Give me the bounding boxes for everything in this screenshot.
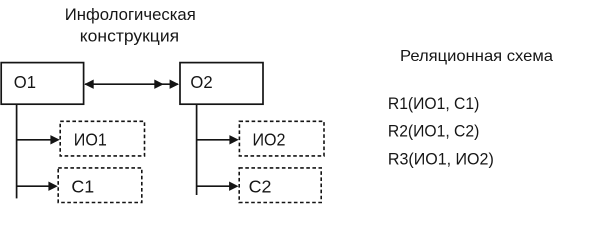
svg-text:О1: О1 bbox=[14, 72, 36, 92]
svg-text:R3(ИО1, ИО2): R3(ИО1, ИО2) bbox=[388, 150, 494, 168]
dashed box C1 bbox=[58, 168, 142, 203]
box O2 bbox=[180, 63, 263, 105]
svg-text:С1: С1 bbox=[71, 176, 94, 196]
box O1 bbox=[1, 63, 83, 105]
wire arrow to C1 bbox=[17, 182, 58, 191]
dashed box IO1 bbox=[60, 121, 144, 156]
wire arrow to IO2 bbox=[197, 135, 239, 144]
svg-text:конструкция: конструкция bbox=[80, 26, 179, 45]
wire double arrow O1-O2 bbox=[84, 80, 179, 89]
wire arrow to C2 bbox=[197, 182, 239, 191]
svg-text:ИО1: ИО1 bbox=[74, 130, 107, 150]
svg-text:Реляционная схема: Реляционная схема bbox=[400, 48, 553, 65]
svg-text:Инфологическая: Инфологическая bbox=[65, 5, 196, 24]
dashed box IO2 bbox=[239, 121, 324, 156]
wire arrow to IO1 bbox=[17, 135, 60, 144]
wire vertical from O1 bbox=[16, 104, 18, 198]
svg-text:R1(ИО1, С1): R1(ИО1, С1) bbox=[388, 95, 479, 113]
svg-text:ИО2: ИО2 bbox=[253, 130, 286, 150]
wire vertical from O2 bbox=[196, 104, 198, 195]
dashed box C2 bbox=[239, 168, 321, 203]
svg-text:О2: О2 bbox=[190, 72, 212, 92]
svg-text:R2(ИО1, С2): R2(ИО1, С2) bbox=[388, 123, 479, 141]
svg-text:С2: С2 bbox=[249, 176, 272, 196]
